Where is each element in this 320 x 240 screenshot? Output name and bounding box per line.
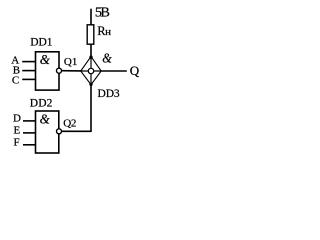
svg-text:E: E	[14, 125, 21, 137]
DD3 cross vertical	[90, 57, 92, 85]
junction dot DD3 top vertex	[89, 56, 92, 59]
wire input C	[22, 78, 35, 80]
svg-text:C: C	[12, 74, 19, 86]
svg-text:5B: 5B	[95, 6, 110, 21]
svg-text:&: &	[102, 50, 112, 65]
wire input A	[22, 61, 35, 63]
svg-text:&: &	[40, 53, 50, 68]
inverter bubble DD2 output	[57, 129, 62, 134]
svg-text:Q1: Q1	[64, 56, 77, 68]
svg-text:&: &	[40, 112, 50, 127]
gate DD2 body	[36, 111, 59, 153]
wire output Q	[101, 70, 127, 72]
wire input E	[23, 132, 36, 134]
wire input D	[23, 120, 36, 122]
resistor RH	[87, 25, 94, 44]
svg-text:DD1: DD1	[30, 36, 52, 48]
wired-AND DD3 rhombus	[81, 57, 102, 85]
svg-text:D: D	[13, 113, 21, 125]
svg-text:DD2: DD2	[30, 98, 53, 110]
DD3 cross horizontal	[81, 70, 102, 72]
svg-text:Q: Q	[130, 63, 140, 78]
DD3 center circle	[88, 68, 93, 73]
gate DD1 body	[36, 52, 60, 90]
svg-text:Q2: Q2	[63, 118, 76, 130]
wire input F	[23, 144, 36, 146]
wire Q2 vertical to DD3 bottom vertex	[90, 84, 92, 132]
wire resistor to DD3 top vertex	[90, 45, 92, 58]
svg-text:DD3: DD3	[98, 88, 120, 100]
svg-text:F: F	[14, 137, 20, 149]
junction dot DD3 bottom vertex	[89, 83, 92, 86]
wire Q2 horizontal	[62, 130, 91, 132]
svg-text:Rн: Rн	[97, 24, 111, 38]
inverter bubble DD1 output	[57, 68, 62, 73]
wire supply to resistor	[90, 9, 92, 25]
wire Q1 to DD3 left vertex	[62, 70, 81, 72]
wire input B	[22, 70, 35, 72]
